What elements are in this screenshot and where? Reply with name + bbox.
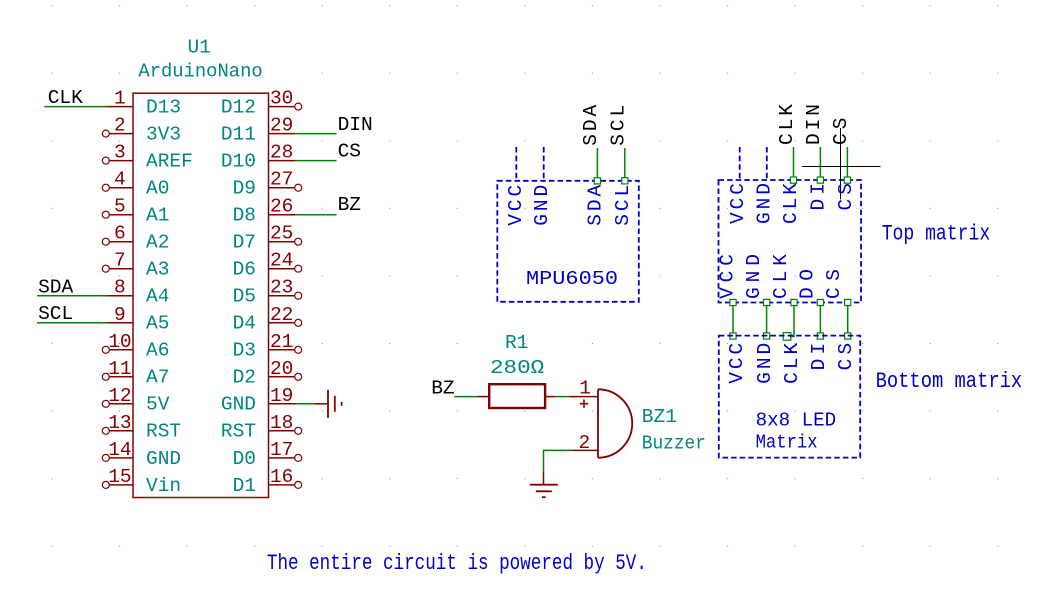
U1 pin 7 (A3) left: [102, 250, 169, 281]
U1 pin 28 (D10) right: [221, 142, 295, 173]
svg-text:VCC: VCC: [717, 254, 739, 299]
svg-text:11: 11: [108, 358, 131, 380]
U1 pin 20 (D2) right: [233, 358, 302, 389]
U1 pin 18 (RST) right: [221, 412, 302, 443]
svg-text:8: 8: [114, 277, 126, 299]
U1 pin 22 (D4) right: [233, 304, 302, 335]
svg-text:SDA: SDA: [585, 185, 607, 226]
svg-text:D3: D3: [233, 340, 256, 362]
U1 pin 19 (GND) right: [221, 385, 295, 416]
svg-text:A1: A1: [146, 205, 169, 227]
svg-text:D5: D5: [233, 286, 256, 308]
buzzer pin 1 plus sign: [580, 400, 589, 408]
wire GND between matrices: [764, 299, 770, 339]
svg-text:A4: A4: [146, 286, 169, 308]
svg-text:9: 9: [114, 304, 126, 326]
svg-text:RST: RST: [221, 421, 256, 443]
MPU6050 VCC stub: [515, 147, 517, 181]
svg-text:DIN: DIN: [803, 104, 825, 145]
svg-text:VCC: VCC: [727, 183, 749, 224]
wire SCL to MPU6050: [624, 148, 626, 181]
svg-text:D4: D4: [233, 313, 256, 335]
svg-text:SDA: SDA: [38, 276, 73, 298]
U1 pin 23 (D5) right: [233, 277, 302, 308]
svg-text:20: 20: [270, 358, 293, 380]
svg-text:D0: D0: [233, 448, 256, 470]
svg-text:CLK: CLK: [780, 183, 802, 224]
svg-text:DIN: DIN: [338, 114, 373, 136]
svg-text:1: 1: [114, 88, 126, 110]
svg-text:8x8 LED: 8x8 LED: [756, 410, 837, 432]
svg-text:1: 1: [579, 378, 591, 400]
U1 pin 14 (GND) left: [102, 439, 181, 470]
svg-text:2: 2: [579, 432, 591, 454]
svg-text:MPU6050: MPU6050: [526, 268, 618, 290]
svg-text:DI: DI: [808, 183, 830, 211]
svg-text:A2: A2: [146, 232, 169, 254]
svg-text:D13: D13: [146, 97, 181, 119]
svg-text:23: 23: [270, 277, 293, 299]
svg-text:CS: CS: [338, 141, 361, 163]
svg-text:ArduinoNano: ArduinoNano: [138, 60, 262, 82]
svg-text:12: 12: [108, 385, 131, 407]
U1 pin 25 (D7) right: [233, 223, 302, 254]
svg-text:SCL: SCL: [612, 185, 634, 226]
wire CS to Top matrix: [846, 147, 848, 180]
svg-text:Bottom matrix: Bottom matrix: [876, 368, 1023, 394]
U1 pin 12 (5V) left: [102, 385, 169, 416]
svg-text:Top matrix: Top matrix: [882, 220, 991, 246]
wire CLK to pin 1: [44, 106, 107, 108]
wire DIN from pin 29: [295, 133, 337, 135]
resistor R1: [477, 384, 555, 408]
svg-text:A5: A5: [146, 313, 169, 335]
svg-text:SDA: SDA: [580, 105, 602, 146]
svg-text:D9: D9: [233, 178, 256, 200]
svg-text:26: 26: [270, 196, 293, 218]
wire pin 19 to ground: [295, 403, 314, 405]
svg-text:RST: RST: [146, 421, 181, 443]
svg-text:D1: D1: [233, 475, 256, 497]
svg-text:25: 25: [270, 223, 293, 245]
wire SDA to pin 8: [37, 295, 107, 297]
cursor crosshair: [802, 128, 881, 199]
svg-text:30: 30: [270, 88, 293, 110]
U1 pin 21 (D3) right: [233, 331, 302, 362]
svg-text:19: 19: [270, 385, 293, 407]
svg-text:CLK: CLK: [781, 343, 803, 384]
U1 pin 1 (D13) left: [107, 88, 181, 119]
svg-text:D8: D8: [233, 205, 256, 227]
MPU6050 module box: [497, 181, 639, 302]
svg-text:16: 16: [270, 466, 293, 488]
svg-text:GND: GND: [754, 183, 776, 224]
wire VCC between matrices: [730, 299, 736, 339]
svg-text:The entire circuit is powered: The entire circuit is powered by 5V.: [267, 550, 647, 576]
U1 pin 15 (Vin) left: [102, 466, 181, 497]
svg-text:BZ1: BZ1: [642, 406, 677, 428]
svg-text:28: 28: [270, 142, 293, 164]
svg-text:R1: R1: [505, 332, 528, 354]
svg-text:3V3: 3V3: [146, 124, 181, 146]
wire BZ to R1: [454, 396, 477, 398]
MPU6050 GND stub: [543, 147, 545, 181]
svg-text:29: 29: [270, 115, 293, 137]
wire DIN to Top matrix: [819, 147, 821, 180]
svg-text:D12: D12: [221, 97, 256, 119]
wire CS from pin 28: [295, 160, 337, 162]
svg-text:2: 2: [114, 115, 126, 137]
svg-text:D6: D6: [233, 259, 256, 281]
U1 pin 9 (A5) left: [107, 304, 169, 335]
wire CS between matrices: [845, 299, 851, 339]
Top matrix box: [719, 180, 862, 303]
svg-text:CLK: CLK: [770, 254, 792, 299]
svg-text:DI: DI: [808, 343, 830, 371]
svg-text:3: 3: [114, 142, 126, 164]
U1 pin 2 (3V3) left: [102, 115, 181, 146]
svg-text:280Ω: 280Ω: [490, 357, 545, 379]
svg-text:BZ: BZ: [338, 194, 361, 216]
svg-text:CLK: CLK: [776, 104, 798, 145]
svg-text:18: 18: [270, 412, 293, 434]
buzzer BZ1: [570, 389, 633, 457]
svg-text:CS: CS: [823, 269, 845, 299]
svg-text:SCL: SCL: [608, 105, 630, 146]
svg-text:GND: GND: [754, 343, 776, 384]
wire CLK to Top matrix: [793, 147, 795, 180]
U1 pin 30 (D12) right: [221, 88, 302, 119]
svg-text:7: 7: [114, 250, 126, 272]
svg-text:A3: A3: [146, 259, 169, 281]
svg-text:17: 17: [270, 439, 293, 461]
svg-text:6: 6: [114, 223, 126, 245]
wire CLK between matrices (with jog): [783, 299, 797, 340]
svg-text:27: 27: [270, 169, 293, 191]
U1 pin 5 (A1) left: [102, 196, 169, 227]
wire DI between matrices: [817, 299, 823, 339]
svg-text:21: 21: [270, 331, 293, 353]
svg-text:A0: A0: [146, 178, 169, 200]
U1 pin 16 (D1) right: [233, 466, 302, 497]
svg-text:13: 13: [108, 412, 131, 434]
svg-text:D11: D11: [221, 124, 256, 146]
svg-text:5V: 5V: [146, 394, 170, 416]
wire SDA to MPU6050: [596, 148, 598, 181]
U1 pin 29 (D11) right: [221, 115, 295, 146]
svg-text:BZ: BZ: [431, 378, 454, 400]
Top matrix GND stub: [766, 147, 768, 180]
svg-text:D7: D7: [233, 232, 256, 254]
svg-text:CS: CS: [835, 183, 857, 211]
wire BZ from pin 26: [295, 214, 337, 216]
U1 pin 17 (D0) right: [233, 439, 302, 470]
U1 pin 8 (A4) left: [107, 277, 169, 308]
U1 pin 24 (D6) right: [233, 250, 302, 281]
svg-text:22: 22: [270, 304, 293, 326]
ground symbol below buzzer: [530, 472, 558, 498]
svg-text:CLK: CLK: [48, 87, 83, 109]
svg-text:Matrix: Matrix: [756, 432, 818, 454]
svg-text:AREF: AREF: [146, 151, 193, 173]
U1 pin 6 (A2) left: [102, 223, 169, 254]
svg-text:SCL: SCL: [38, 303, 73, 325]
Bottom matrix box: [719, 336, 860, 458]
svg-text:GND: GND: [221, 394, 256, 416]
ground symbol at pin 19 (rotated): [314, 390, 342, 418]
svg-text:GND: GND: [146, 448, 181, 470]
U1 pin 11 (A7) left: [102, 358, 169, 389]
U1 pin 27 (D9) right: [233, 169, 302, 200]
svg-text:GND: GND: [743, 254, 765, 299]
svg-text:CS: CS: [835, 343, 857, 371]
svg-text:Buzzer: Buzzer: [642, 432, 706, 454]
svg-text:D2: D2: [233, 367, 256, 389]
svg-text:10: 10: [108, 331, 131, 353]
wire R1 to buzzer pin 1: [555, 396, 569, 398]
U1 pin 4 (A0) left: [102, 169, 169, 200]
svg-text:14: 14: [108, 439, 131, 461]
svg-text:Vin: Vin: [146, 475, 181, 497]
svg-text:D10: D10: [221, 151, 256, 173]
IC U1 body: [133, 93, 269, 497]
svg-text:DO: DO: [796, 269, 818, 299]
svg-text:U1: U1: [187, 37, 210, 59]
svg-text:5: 5: [114, 196, 126, 218]
U1 pin 10 (A6) left: [102, 331, 169, 362]
svg-text:VCC: VCC: [505, 185, 527, 226]
U1 pin 26 (D8) right: [233, 196, 295, 227]
svg-text:VCC: VCC: [726, 343, 748, 384]
Top matrix VCC stub: [739, 147, 741, 180]
wire SCL to pin 9: [37, 322, 107, 324]
svg-text:A7: A7: [146, 367, 169, 389]
svg-text:24: 24: [270, 250, 293, 272]
svg-text:GND: GND: [531, 185, 553, 226]
U1 pin 13 (RST) left: [102, 412, 181, 443]
svg-text:4: 4: [114, 169, 126, 191]
wire buzzer pin 2 to ground: [544, 450, 573, 471]
svg-text:A6: A6: [146, 340, 169, 362]
svg-text:15: 15: [108, 466, 131, 488]
U1 pin 3 (AREF) left: [102, 142, 193, 173]
